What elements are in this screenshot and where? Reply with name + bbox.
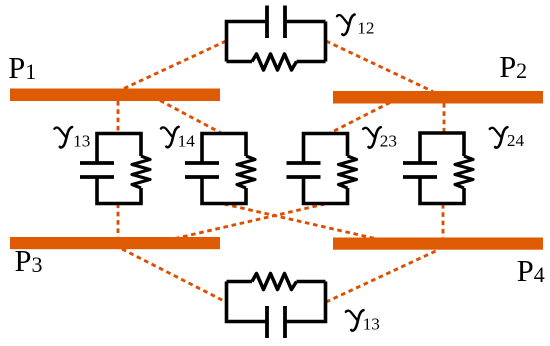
resistor of bottom Y13 (top side) (252, 274, 297, 290)
resistor of Y14 block (237, 156, 255, 188)
wire: Y23 block to P3 (175, 204, 325, 239)
resistor of Y24 block (455, 156, 473, 188)
svg-text:13: 13 (363, 315, 380, 334)
resistor of Y23 block (339, 156, 357, 188)
wire: P4 to bottom Y13 element (326, 250, 439, 303)
wire: Y14 block to P4 (224, 204, 375, 239)
wire: P1 to Y13 block (117, 101, 120, 134)
wire: Y13 block loop (97, 134, 141, 204)
label Y23 (363, 127, 397, 150)
capacitor of bottom Y13 (bottom side) (267, 306, 285, 338)
capacitor of Y12 (top) (267, 6, 285, 39)
svg-text:13: 13 (73, 132, 90, 151)
wire: Y24 block loop (420, 133, 464, 204)
wire: Y14 block loop (202, 134, 246, 204)
label Y13 bottom (346, 310, 380, 333)
wire: P1 to Y14 block (160, 101, 222, 134)
label Y24 (490, 127, 525, 150)
svg-text:23: 23 (380, 132, 397, 151)
wire: Y24 block to P4 (442, 204, 445, 238)
capacitor of Y14 block (185, 163, 219, 177)
svg-text:12: 12 (357, 19, 374, 38)
label Y14 (161, 127, 195, 151)
wire: P2 to Y23 block (329, 103, 390, 134)
wire: Y12 left lead to P1 (124, 41, 226, 89)
port bar P3 (10, 237, 220, 249)
capacitor of Y13 block (80, 163, 114, 177)
port bar P4 (333, 238, 543, 250)
wire: bottom Y13 element loop (227, 282, 326, 322)
resistor of Y12 (top) (252, 54, 297, 70)
port bar P1 (10, 89, 220, 102)
capacitor of Y23 block (287, 163, 321, 177)
wire: Y23 block loop (304, 134, 348, 204)
capacitor of Y24 block (403, 163, 437, 177)
svg-text:14: 14 (178, 131, 196, 150)
label Y13 (54, 127, 90, 151)
wire: Y13 block to P3 (117, 204, 120, 239)
resistor of Y13 block (132, 156, 150, 188)
label Y12 (337, 15, 375, 38)
wire: Y12 right lead to P2 (326, 41, 433, 92)
svg-text:24: 24 (507, 131, 525, 150)
port bar P2 (333, 91, 543, 104)
wire: Y12 element loop (227, 22, 326, 62)
wire: P2 to Y24 block (443, 103, 446, 133)
wire: P3 to bottom Y13 element (122, 249, 226, 302)
